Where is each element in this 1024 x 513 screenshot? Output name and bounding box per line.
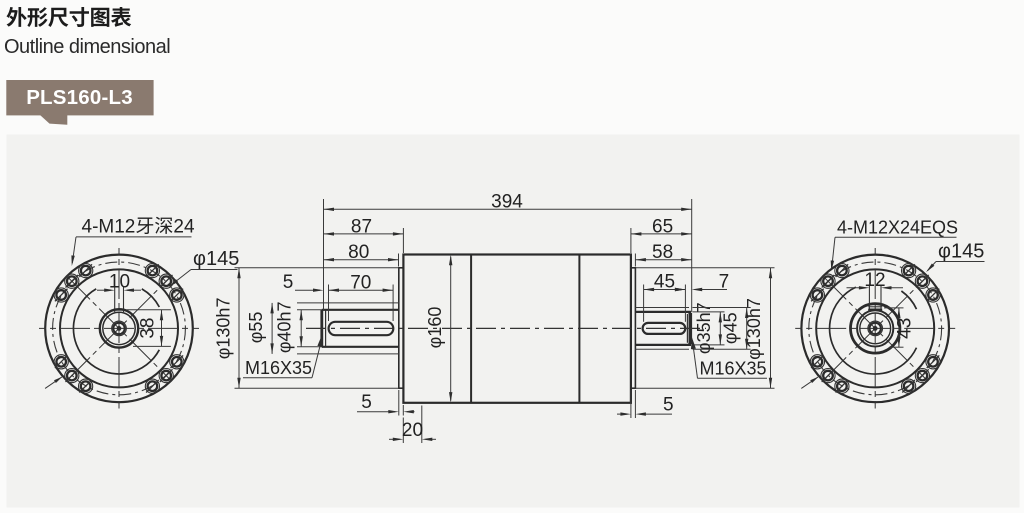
svg-text:7: 7 <box>719 272 730 293</box>
right view M12 hole at 60deg <box>902 264 916 278</box>
right view M12 hole at 135deg <box>821 274 835 288</box>
svg-text:φ145: φ145 <box>938 241 984 263</box>
left view vertical centerline <box>118 248 120 409</box>
right view M12 hole at 240deg <box>835 379 849 393</box>
right view hub circle phi35 <box>860 313 891 344</box>
svg-text:φ130h7: φ130h7 <box>744 298 764 360</box>
svg-text:φ40h7: φ40h7 <box>275 301 295 353</box>
right view leader arrow on 225deg diagonal <box>801 377 818 388</box>
left view M12 hole at 315deg <box>159 369 173 383</box>
right view M12 hole at 225deg <box>821 369 835 383</box>
right view M12 hole at 30deg <box>926 288 940 302</box>
right view M12 hole at 45deg <box>915 274 929 288</box>
svg-text:Outline dimensional: Outline dimensional <box>4 36 170 58</box>
dim 65 <box>630 228 632 253</box>
left view M12 hole at 45deg <box>159 274 173 288</box>
svg-text:5: 5 <box>361 392 372 413</box>
dim 45 right keyway <box>643 285 645 322</box>
dim phi130h7 right <box>636 267 775 269</box>
svg-text:φ55: φ55 <box>246 312 266 344</box>
left view hub circle phi35 <box>103 312 135 344</box>
side view main body <box>403 255 631 403</box>
svg-text:65: 65 <box>652 216 673 237</box>
svg-text:80: 80 <box>348 242 369 263</box>
svg-text:4-M12X24EQS: 4-M12X24EQS <box>837 218 958 238</box>
svg-text:45: 45 <box>654 272 675 293</box>
left keyway slot 70mm <box>329 322 394 335</box>
svg-text:87: 87 <box>351 216 372 237</box>
svg-text:70: 70 <box>350 272 371 293</box>
dim 5 left pilot bottom <box>398 390 400 416</box>
right shaft chamfers <box>688 312 691 315</box>
right view flange outer circle φ160 <box>801 255 949 403</box>
right view bolt circle φ145 (dashed) <box>809 262 942 395</box>
right view dim 43 keyway to bottom <box>884 307 904 309</box>
drawing panel <box>7 135 1020 508</box>
svg-text:φ160: φ160 <box>425 307 445 349</box>
svg-text:24: 24 <box>173 217 195 238</box>
left view M12 hole at 150deg <box>54 288 68 302</box>
left shaft end face <box>320 310 323 347</box>
left view diagonal centerline 45deg <box>69 278 169 378</box>
right view M16 drill circle <box>870 323 881 334</box>
dim phi130h7 left <box>235 267 399 269</box>
dim 70 keyway <box>328 285 330 322</box>
left view M12 hole at 240deg <box>79 379 93 393</box>
left view keyway slot <box>114 287 116 313</box>
left view M12 hole at 300deg <box>145 379 159 393</box>
left view M12 hole at 210deg <box>54 355 68 369</box>
svg-text:φ145: φ145 <box>193 248 239 270</box>
right view M12 hole at 150deg <box>810 288 824 302</box>
right view vertical centerline <box>874 248 876 409</box>
left view M12 hole at 30deg <box>170 288 184 302</box>
model badge PLS160-L3 <box>6 80 153 115</box>
svg-text:φ35h7: φ35h7 <box>694 302 714 354</box>
right shaft phi35h7 <box>635 311 691 313</box>
left view horizontal centerline <box>39 327 199 329</box>
svg-text:394: 394 <box>491 192 523 213</box>
dim 5 left shaft end <box>295 289 320 291</box>
right shaft end face (thick bar) <box>689 313 693 344</box>
right view hub shaft circle phi40 <box>857 310 893 346</box>
left view M12 hole at 120deg <box>79 264 93 278</box>
dim 20 <box>402 418 404 444</box>
left phi55 boss lines <box>297 302 399 304</box>
body internal ring line 2 <box>578 255 580 403</box>
svg-text:43: 43 <box>895 318 916 339</box>
right view M12 hole at 210deg <box>810 355 824 369</box>
left view bolt circle φ145 (dashed) <box>53 262 186 395</box>
dim phi40h7 left <box>297 309 322 311</box>
svg-text:4-M12: 4-M12 <box>82 217 136 238</box>
right flange view <box>795 248 955 409</box>
svg-text:M16X35: M16X35 <box>700 359 767 379</box>
title chinese (paths) <box>6 7 131 27</box>
dim 87 <box>402 228 404 253</box>
right view M12 hole at 120deg <box>835 264 849 278</box>
dim 80 <box>398 254 400 267</box>
svg-text:38: 38 <box>138 318 159 339</box>
svg-text:5: 5 <box>663 395 674 416</box>
right view diagonal centerline 135deg <box>825 278 925 378</box>
dim 394 overall <box>323 199 325 310</box>
right view pilot circle φ130h7 <box>816 269 934 387</box>
right pilot plate phi130h7 <box>631 268 636 388</box>
dim 58 <box>634 254 636 267</box>
dim 7 right shaft end <box>678 289 682 291</box>
right view M12 hole at 330deg <box>926 355 940 369</box>
left view dim 38 keyway to bottom <box>127 309 171 311</box>
right view M12 hole at 315deg <box>915 369 929 383</box>
svg-text:5: 5 <box>283 272 294 293</box>
left view M12 hole at 135deg <box>65 274 79 288</box>
left view diagonal centerline 135deg <box>69 278 169 378</box>
body internal ring line 1 <box>470 255 472 403</box>
svg-text:φ45: φ45 <box>721 312 741 344</box>
right view inner face circle (arcs broken at dims) <box>830 287 917 374</box>
right view M12 hole at 300deg <box>902 379 916 393</box>
svg-text:M16X35: M16X35 <box>245 358 312 378</box>
left view inner face circle (arcs broken at dims) <box>73 289 159 374</box>
right phi45 collar lines <box>635 307 689 309</box>
dim phi55 left <box>271 303 273 354</box>
right view hub boss circle phi55 <box>851 304 900 353</box>
svg-text:58: 58 <box>652 242 673 263</box>
left view pilot circle φ130h7 <box>60 269 178 387</box>
right view M16 thread circle <box>868 321 883 336</box>
right view diagonal centerline 45deg <box>825 278 925 378</box>
left view M12 hole at 225deg <box>65 369 79 383</box>
dim phi160 body <box>450 257 452 401</box>
right shaft chamfer inner line <box>686 314 688 343</box>
left pilot plate phi130h7 <box>399 268 404 388</box>
left shaft phi40h7 <box>322 309 399 311</box>
right view keyway slot <box>868 285 870 312</box>
main horizontal centerline <box>306 327 706 329</box>
dim phi45 right <box>693 307 751 309</box>
right keyway slot 45mm <box>643 323 686 334</box>
left flange view <box>39 248 199 409</box>
left view M16 drill circle <box>113 323 124 334</box>
left shaft chamfer line <box>325 311 327 347</box>
left view hub shaft circle phi40 <box>100 309 138 347</box>
right view horizontal centerline <box>795 327 955 329</box>
svg-text:PLS160-L3: PLS160-L3 <box>26 86 133 109</box>
left view leader arrow on 225deg diagonal <box>45 377 62 388</box>
svg-text:10: 10 <box>109 271 130 292</box>
left view M16 thread circle <box>112 321 127 336</box>
svg-text:φ130h7: φ130h7 <box>214 298 234 360</box>
left view flange outer circle φ160 <box>45 255 193 403</box>
svg-text:20: 20 <box>402 420 423 441</box>
left view M12 hole at 60deg <box>145 264 159 278</box>
dim 5 right pilot bottom <box>630 390 632 418</box>
dim phi35h7 right <box>693 311 725 313</box>
left view M12 hole at 330deg <box>170 355 184 369</box>
